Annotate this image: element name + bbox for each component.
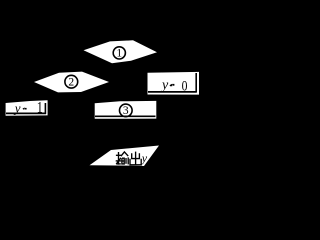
hanzi chu (output char 2) as strokes — [130, 152, 141, 165]
hanzi shu (output char 1) as strokes — [116, 152, 129, 165]
svg-text:y: y — [141, 151, 148, 165]
svg-text:0: 0 — [182, 77, 188, 94]
output parallelogram — [90, 146, 160, 167]
process box y&#8592;0 — [148, 72, 200, 95]
decision diamond 1 — [84, 40, 158, 63]
svg-text:3: 3 — [123, 105, 129, 117]
svg-text:y: y — [13, 101, 21, 116]
svg-text:1: 1 — [37, 100, 43, 117]
process box 3 — [95, 101, 157, 119]
decision diamond 2 — [34, 72, 109, 93]
process box y&#8592;1 — [6, 100, 48, 117]
svg-text:y: y — [160, 78, 169, 93]
svg-text:1: 1 — [116, 48, 122, 60]
svg-text:2: 2 — [68, 77, 74, 89]
